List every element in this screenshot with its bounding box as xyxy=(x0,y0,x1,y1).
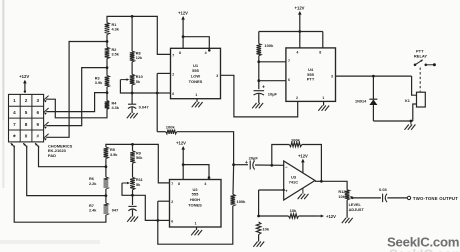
svg-text:1N914: 1N914 xyxy=(355,99,367,103)
U1 pin1 ground xyxy=(196,99,198,102)
svg-text:2: 2 xyxy=(171,200,173,204)
resistor R4 4.3k xyxy=(105,101,110,109)
resistor 100k (high tone mix) xyxy=(231,194,236,206)
svg-text:100k: 100k xyxy=(166,125,176,130)
svg-text:8: 8 xyxy=(179,51,181,55)
keypad column contact arms xyxy=(11,143,15,147)
svg-text:3.9k: 3.9k xyxy=(110,153,118,157)
svg-text:047: 047 xyxy=(112,208,119,213)
svg-text:R8: R8 xyxy=(136,52,141,56)
ground at relay return xyxy=(410,121,412,125)
svg-text:7: 7 xyxy=(288,59,290,63)
wire +V node to R9 xyxy=(131,143,134,146)
resistor 100k (low tone mix) xyxy=(157,131,166,133)
wire op-amp non-inverting input xyxy=(259,189,284,191)
svg-text:4: 4 xyxy=(204,182,206,186)
svg-text:R2: R2 xyxy=(112,48,117,52)
op-amp V- ground xyxy=(302,188,304,194)
svg-text:8: 8 xyxy=(25,122,28,127)
svg-text:1: 1 xyxy=(195,222,197,226)
resistor R3 3.9k xyxy=(105,76,110,88)
svg-text:6: 6 xyxy=(171,220,173,224)
node op-amp output xyxy=(320,180,323,183)
wire timing node to U2 pins 2/6 xyxy=(133,195,158,220)
svg-text:+12V: +12V xyxy=(19,74,29,79)
wire U1 pin3 to U4 pin2 trigger xyxy=(221,75,298,117)
wire U2 pins 2/6 node loop to 100k mix resistor xyxy=(158,206,233,244)
svg-text:10µF: 10µF xyxy=(268,91,278,96)
resistor 100k feedback xyxy=(272,145,290,166)
svg-text:3: 3 xyxy=(216,74,218,78)
resistor R5 3.9k xyxy=(104,147,109,159)
svg-text:TWO-TONE OUTPUT: TWO-TONE OUTPUT xyxy=(413,196,458,201)
node U1 timing / junction dot xyxy=(131,92,134,95)
svg-text:PTT: PTT xyxy=(307,77,315,82)
svg-text:TONES: TONES xyxy=(189,79,203,84)
wire 100k to summing node xyxy=(232,166,235,194)
svg-text:+12V: +12V xyxy=(176,140,186,145)
resistor 10k bias to +12V xyxy=(259,215,289,217)
wire +12V rail of U4 xyxy=(259,31,323,33)
svg-text:*: * xyxy=(13,135,16,142)
node U4 pin6 xyxy=(257,79,260,82)
ground below .047 cap xyxy=(127,217,131,222)
svg-text:100k: 100k xyxy=(264,43,274,48)
svg-text:7: 7 xyxy=(172,53,174,57)
node U4 pin7 xyxy=(257,60,260,63)
svg-text:−: − xyxy=(285,164,288,169)
resistor R7 2.4k xyxy=(104,203,109,215)
svg-text:4.3k: 4.3k xyxy=(112,106,120,110)
node high tap2 / wire to keypad column B xyxy=(105,194,108,197)
svg-text:555: 555 xyxy=(192,192,199,197)
svg-text:R5: R5 xyxy=(110,148,115,152)
capacitor 0.047 (low tones) xyxy=(128,103,136,105)
svg-text:SeekIC.com: SeekIC.com xyxy=(389,247,460,252)
svg-text:2.4k: 2.4k xyxy=(89,208,97,212)
wire +V node to R8 xyxy=(131,15,134,18)
svg-text:10k: 10k xyxy=(290,208,297,213)
op U2 555 HIGH TONES xyxy=(170,180,222,228)
svg-text:2: 2 xyxy=(172,72,174,76)
relay coil K1 xyxy=(412,76,417,95)
wire U4 pin3 to relay driver xyxy=(336,75,412,77)
resistor R8 12k xyxy=(130,51,135,62)
svg-text:12k: 12k xyxy=(136,56,143,60)
svg-text:7: 7 xyxy=(171,182,173,186)
svg-text:+: + xyxy=(285,189,288,194)
op-amp U3 741C xyxy=(284,161,315,200)
node tap2 / wire to keypad row 3 xyxy=(106,66,109,69)
node summing junction xyxy=(232,163,235,166)
svg-text:R6: R6 xyxy=(89,177,94,181)
svg-text:ADJUST: ADJUST xyxy=(349,208,365,212)
svg-text:R1: R1 xyxy=(112,23,117,27)
svg-text:+: + xyxy=(262,84,265,90)
svg-text:+12V: +12V xyxy=(178,11,188,16)
svg-text:R9: R9 xyxy=(136,152,141,156)
svg-text:4: 4 xyxy=(13,110,16,115)
svg-text:3: 3 xyxy=(36,98,39,103)
svg-text:0: 0 xyxy=(25,134,28,139)
svg-text:R12: R12 xyxy=(338,190,345,194)
wire timing node to U1 pins 2/6 xyxy=(132,92,157,94)
capacitor 0.03 output coupling xyxy=(352,197,381,199)
potentiometer R10 5k xyxy=(130,74,135,85)
svg-text:2.2k: 2.2k xyxy=(89,182,97,186)
resistor 100k (PTT timing) xyxy=(258,32,260,44)
svg-text:1: 1 xyxy=(322,96,324,100)
keypad row contact arms xyxy=(44,96,48,100)
svg-text:R11: R11 xyxy=(136,178,143,182)
node tap3 / wire to keypad row 2 xyxy=(106,91,109,94)
svg-text:R3: R3 xyxy=(95,77,100,81)
svg-text:K1: K1 xyxy=(405,99,410,103)
svg-text:10k: 10k xyxy=(262,227,269,232)
svg-text:9: 9 xyxy=(36,122,39,127)
svg-text:100k: 100k xyxy=(237,199,247,204)
wire U1 pins 2/6 node to mixing resistor 100k xyxy=(156,93,158,132)
svg-text:R10: R10 xyxy=(136,75,143,79)
svg-text:100k: 100k xyxy=(291,138,301,143)
svg-text:20µF: 20µF xyxy=(249,155,259,160)
ground below R12 xyxy=(342,218,346,223)
wire R10 wiper loop xyxy=(120,80,132,93)
svg-text:3.9k: 3.9k xyxy=(95,81,103,85)
svg-text:6: 6 xyxy=(36,110,39,115)
wire op-amp output to level pot xyxy=(315,180,321,182)
svg-text:6: 6 xyxy=(172,92,174,96)
svg-text:0.047: 0.047 xyxy=(139,105,150,110)
svg-text:HIGH: HIGH xyxy=(190,197,200,202)
svg-text:#: # xyxy=(36,134,39,139)
op U4 555 PTT xyxy=(286,48,336,102)
svg-text:PAD: PAD xyxy=(48,153,56,158)
svg-text:741C: 741C xyxy=(289,179,299,184)
svg-text:4: 4 xyxy=(296,50,298,54)
wire high chain bottom to keypad column A xyxy=(14,146,106,223)
ground below 10uF cap xyxy=(252,103,256,108)
potentiometer R12 10k LEVEL ADJUST xyxy=(345,190,350,200)
svg-text:6: 6 xyxy=(288,78,290,82)
resistor R9 56k xyxy=(130,151,135,164)
wire diode to relay coil return xyxy=(373,120,412,122)
svg-text:3: 3 xyxy=(331,75,333,79)
node U2 timing / junction dot xyxy=(131,194,134,197)
svg-text:1: 1 xyxy=(13,98,16,103)
svg-text:+12V: +12V xyxy=(326,214,336,219)
capacitor .047 (high tones) xyxy=(128,205,136,207)
svg-text:2: 2 xyxy=(296,96,298,100)
svg-text:1: 1 xyxy=(195,93,197,97)
node bias divider xyxy=(257,215,260,218)
svg-text:8: 8 xyxy=(178,182,180,186)
svg-text:R7: R7 xyxy=(89,204,94,208)
capacitor 20uF coupling xyxy=(234,164,248,166)
svg-text:LOW: LOW xyxy=(191,73,201,78)
U2 pin1 ground xyxy=(196,227,198,230)
svg-text:+12V: +12V xyxy=(298,153,308,158)
svg-text:+: + xyxy=(245,160,248,166)
wire high chain top to pin7 of U2 xyxy=(106,144,170,183)
svg-text:7: 7 xyxy=(13,122,16,127)
svg-text:0.03: 0.03 xyxy=(379,187,388,192)
potentiometer R11 5k xyxy=(130,177,135,190)
dashed mechanical link to K1 xyxy=(419,68,421,92)
terminal TWO-TONE OUTPUT xyxy=(407,196,410,199)
U4 pin1 ground xyxy=(323,101,325,105)
wire chain top to pin7 of U1 xyxy=(107,16,171,54)
resistor R1 4.3k xyxy=(105,23,110,35)
svg-text:RELAY: RELAY xyxy=(414,53,428,58)
ground below 0.047 cap xyxy=(127,113,131,118)
wire 100k to summing node xyxy=(177,132,234,165)
resistor R6 2.2k xyxy=(104,177,109,189)
op U1 555 LOW TONES xyxy=(171,48,221,98)
svg-text:4.3k: 4.3k xyxy=(112,28,120,32)
resistor 10k bias to ground xyxy=(256,222,261,235)
svg-text:56k: 56k xyxy=(136,156,143,160)
node inverting input / feedback tap xyxy=(270,164,273,167)
svg-text:3.5k: 3.5k xyxy=(112,53,120,57)
svg-text:5: 5 xyxy=(25,110,28,115)
keypad CHOMERICS EK-21623 PAD xyxy=(9,94,44,141)
svg-text:4: 4 xyxy=(205,51,207,55)
svg-text:8: 8 xyxy=(319,50,321,54)
svg-text:LEVEL: LEVEL xyxy=(349,203,362,207)
wire R11 wiper loop xyxy=(122,183,133,195)
ground below bias 10k xyxy=(253,242,257,247)
svg-text:10k: 10k xyxy=(338,195,345,199)
wire chain bottom to keypad row 1 xyxy=(46,99,107,118)
node high tap1 / wire to keypad column C xyxy=(105,165,108,168)
node tap1 / wire to keypad row 4 xyxy=(106,40,109,43)
svg-text:TONES: TONES xyxy=(188,203,202,208)
svg-text:2: 2 xyxy=(25,98,28,103)
svg-text:555: 555 xyxy=(192,68,199,73)
resistor R2 3.5k xyxy=(105,47,110,58)
svg-text:+12V: +12V xyxy=(295,6,305,11)
diode 1N914 xyxy=(372,76,374,99)
